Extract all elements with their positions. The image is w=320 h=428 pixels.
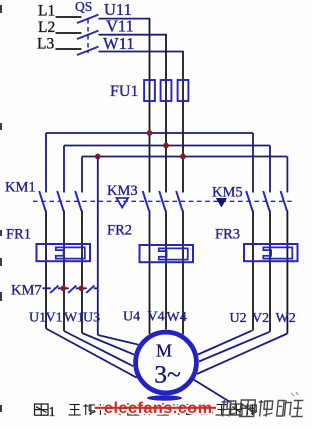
svg-text:1: 1 bbox=[49, 405, 56, 420]
svg-text:FU1: FU1 bbox=[110, 83, 138, 100]
svg-text:U1: U1 bbox=[29, 311, 46, 326]
svg-text:U2: U2 bbox=[230, 311, 247, 326]
svg-text:L1: L1 bbox=[38, 3, 55, 20]
svg-text:V11: V11 bbox=[106, 17, 134, 36]
svg-text:FR3: FR3 bbox=[215, 227, 240, 243]
svg-text:KM1: KM1 bbox=[5, 180, 36, 196]
svg-text:QS: QS bbox=[75, 0, 92, 14]
svg-text:L3: L3 bbox=[37, 36, 54, 53]
svg-text:KM7: KM7 bbox=[11, 283, 42, 299]
svg-text:V4: V4 bbox=[148, 310, 165, 325]
svg-text:KM3: KM3 bbox=[107, 183, 138, 199]
svg-text:M: M bbox=[156, 341, 172, 361]
svg-text:W4: W4 bbox=[167, 310, 187, 325]
svg-text:W1: W1 bbox=[64, 311, 84, 326]
svg-text:V2: V2 bbox=[252, 311, 269, 326]
svg-text:3~: 3~ bbox=[154, 360, 181, 389]
svg-text:FR1: FR1 bbox=[6, 227, 31, 243]
svg-text:V1: V1 bbox=[46, 311, 63, 326]
svg-text:L2: L2 bbox=[38, 19, 55, 36]
svg-text:W2: W2 bbox=[276, 311, 296, 326]
svg-text:W11: W11 bbox=[103, 34, 134, 53]
svg-text:FR2: FR2 bbox=[107, 223, 132, 239]
svg-text:U4: U4 bbox=[123, 310, 140, 325]
svg-text:U3: U3 bbox=[83, 311, 100, 326]
